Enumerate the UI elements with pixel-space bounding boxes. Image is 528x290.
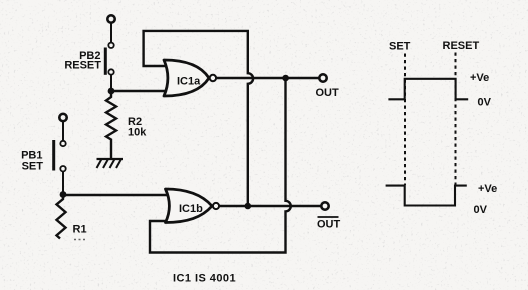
label 10k bbox=[128, 127, 147, 139]
op-amp-style NOR gate IC1a body bbox=[164, 60, 209, 96]
ground bbox=[97, 159, 124, 168]
push-button PB1 lower contact bbox=[60, 166, 65, 171]
svg-text:IC1a: IC1a bbox=[177, 76, 201, 88]
svg-text:OUT: OUT bbox=[316, 87, 340, 99]
dashed SET time line bbox=[404, 54, 406, 186]
wire feedback IC1b output to IC1a top input (with hop over top output wire) bbox=[144, 31, 254, 206]
label OUT (top) bbox=[316, 87, 340, 99]
label RESET bbox=[64, 59, 101, 71]
resistor R1 bbox=[57, 195, 66, 239]
wire IC1a output bbox=[216, 77, 320, 79]
caption IC1 IS 4001 bbox=[173, 273, 236, 285]
waveform OUT (top) bbox=[388, 79, 468, 100]
wire feedback IC1a output to IC1b bottom input (with hop over bottom output wire) bbox=[150, 78, 291, 253]
label RESET (timing) bbox=[443, 40, 480, 52]
NOR gate IC1b body bbox=[166, 189, 213, 223]
junction node PB1/R1/IC1b input bbox=[60, 191, 67, 198]
label PB2 bbox=[79, 50, 100, 62]
svg-text:+Ve: +Ve bbox=[478, 183, 497, 195]
svg-text:RESET: RESET bbox=[64, 59, 101, 71]
node top output junction bbox=[282, 75, 289, 82]
wire PB2 lower contact to node bbox=[110, 75, 112, 91]
label PB1 bbox=[21, 149, 42, 161]
wire PB1 lower contact to node bbox=[62, 171, 64, 194]
junction node PB2/R2/IC1a input bbox=[108, 88, 115, 95]
label 0V (top waveform) bbox=[478, 97, 492, 109]
label IC1a bbox=[177, 76, 201, 88]
waveform OUT-bar (bottom) bbox=[386, 186, 467, 206]
wire PB2 terminal to upper contact bbox=[110, 23, 112, 43]
label SET (timing) bbox=[389, 41, 411, 53]
svg-text:RESET: RESET bbox=[443, 40, 480, 52]
label R2 bbox=[128, 116, 142, 128]
push-button PB2 lower contact bbox=[108, 69, 113, 74]
resistor R2 bbox=[106, 94, 116, 159]
dotted mark under R1 bbox=[74, 239, 86, 241]
wire PB1 terminal to upper contact bbox=[62, 121, 64, 141]
push-button PB1 upper contact bbox=[60, 141, 65, 146]
svg-text:R1: R1 bbox=[73, 224, 87, 236]
label +Ve (top waveform) bbox=[470, 72, 489, 84]
svg-text:IC1 IS 4001: IC1 IS 4001 bbox=[173, 273, 236, 285]
wire IC1b output bbox=[219, 205, 321, 207]
svg-text:10k: 10k bbox=[128, 127, 147, 139]
terminal OUT (top) bbox=[319, 74, 326, 81]
svg-text:OUT: OUT bbox=[317, 219, 341, 231]
terminal OUT-bar (bottom) bbox=[321, 202, 328, 209]
svg-text:SET: SET bbox=[389, 41, 411, 53]
label R1 bbox=[73, 224, 87, 236]
label 0V (bottom waveform) bbox=[474, 204, 488, 216]
terminal PB1 top bbox=[59, 114, 66, 121]
label OUT (bottom) bbox=[317, 219, 341, 231]
svg-text:SET: SET bbox=[22, 160, 44, 172]
svg-text:+Ve: +Ve bbox=[470, 72, 489, 84]
push-button PB2 upper contact bbox=[108, 43, 113, 48]
wire node to IC1a lower input bbox=[111, 90, 167, 92]
svg-text:0V: 0V bbox=[478, 97, 492, 109]
label OUT-bar overline bbox=[318, 216, 339, 218]
label SET (switch) bbox=[22, 160, 44, 172]
dashed RESET time line bbox=[455, 53, 457, 186]
svg-text:IC1b: IC1b bbox=[179, 203, 203, 215]
inverter bubble IC1a bbox=[210, 75, 216, 81]
node bottom output junction bbox=[245, 203, 252, 210]
label +Ve (bottom waveform) bbox=[478, 183, 497, 195]
push-button PB2 actuator bar bbox=[104, 48, 107, 75]
push-button PB1 actuator bar bbox=[52, 140, 55, 171]
svg-text:0V: 0V bbox=[474, 204, 488, 216]
label IC1b bbox=[179, 203, 203, 215]
inverter bubble IC1b bbox=[213, 203, 219, 209]
wire node to IC1b upper input bbox=[63, 194, 168, 196]
terminal PB2 top bbox=[107, 15, 114, 22]
